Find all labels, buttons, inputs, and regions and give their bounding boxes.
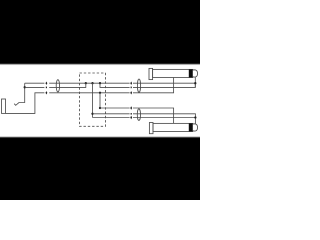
wire: tip line T2 left segment (25, 86, 45, 88)
contact mark diamond on B1 at x=131.2 (130, 116, 132, 119)
wire: T2 resume step-down then right (100, 83, 130, 87)
wire: socket sleeve rail to riser (6, 93, 45, 114)
contact mark diamond on S at x=131.2 (130, 91, 132, 94)
jack socket J1 tip spring contact (14, 83, 25, 105)
contact mark diamond on T1 at x=46.4 (45, 82, 47, 85)
plug P1 body (153, 69, 193, 77)
junction dot bottom tip feed (194, 116, 196, 118)
wire: B1 right segment (133, 117, 195, 119)
contact mark dash on T2 at x=131.2 (131, 87, 132, 89)
plug P2 collar (149, 123, 153, 134)
junction dot sleeve branch (99, 92, 101, 94)
wire: sleeve rail S middle (49, 92, 129, 94)
wire: sleeve drop to bottom branch (99, 93, 101, 108)
plug P2 body (153, 123, 193, 131)
junction dot top tip feed (194, 82, 196, 84)
wire: sleeve rail S right, riser to top plug body (133, 78, 174, 93)
wire: bottom sleeve rail B-S (100, 107, 130, 109)
wire: bottom sleeve rail right, riser down to bottom plug body (133, 108, 174, 123)
plug P1 collar (149, 68, 153, 79)
plug P1 insulator ring (black) (189, 69, 193, 77)
wire: T2 right segment to plug tip riser (133, 83, 195, 87)
junction dot T1 branch resume (99, 82, 101, 84)
junction dot T1/T2 join (85, 82, 87, 84)
wire: bottom tip rail B2 (93, 113, 130, 115)
cable ellipse 1 (56, 80, 59, 92)
top letterbox band (0, 0, 202, 64)
dashed splitter box (80, 73, 106, 126)
wire: B2 right segment, drop to bottom tip feed (133, 114, 195, 124)
wire: tip drop to bottom branch (92, 83, 94, 117)
plug P1 tip (193, 70, 198, 77)
cable ellipse 3 bottom branch (137, 109, 140, 121)
plug P2 tip (193, 124, 198, 131)
wire: top plug tip feed vertical (194, 77, 196, 87)
cable ellipse 2 top branch (137, 79, 140, 92)
contact mark diamond on S at x=46.4 (45, 91, 47, 94)
junction dot T1 branch to bottom plug (91, 82, 93, 84)
wire: T1 rail right (133, 82, 195, 84)
junction dot at socket tip branch (24, 86, 26, 88)
junction dot B2 tap (91, 113, 93, 115)
plug P2 insulator ring (black) (189, 123, 193, 131)
wire: tip line T1 left segment (25, 82, 45, 84)
jack socket J1 sleeve contact rectangle (2, 99, 6, 113)
wire: T2 segment to step-up (49, 83, 86, 87)
wire: bottom tip rail B1 (93, 117, 130, 119)
wire: T1 rail middle (49, 82, 129, 84)
bottom letterbox band (0, 137, 202, 202)
contact mark diamond on B-S at x=131.2 (130, 106, 132, 109)
junction dot bottom sleeve corner (99, 107, 101, 109)
contact mark dash on B2 at x=131.2 (131, 113, 132, 115)
contact mark diamond on T1 at x=131.2 (130, 82, 132, 85)
contact mark dash on T2 at x=46.4 (46, 87, 47, 89)
